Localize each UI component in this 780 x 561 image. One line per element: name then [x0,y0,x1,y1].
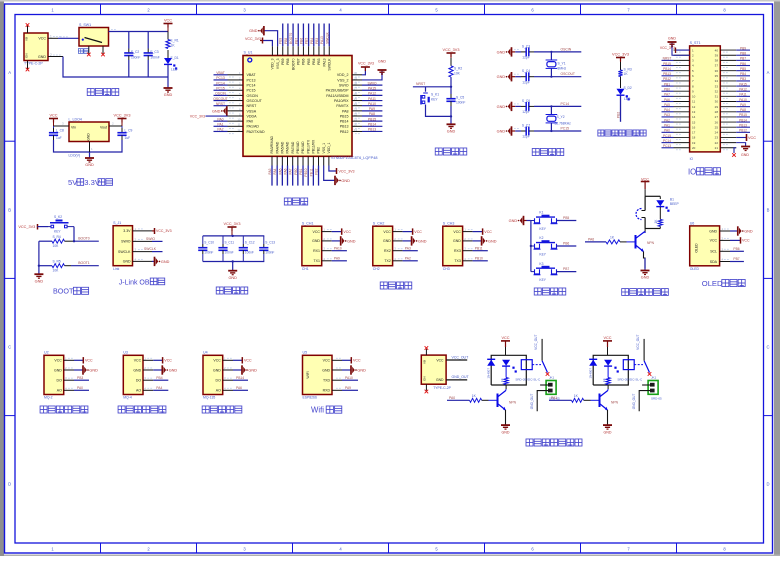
svg-text:S_ST1: S_ST1 [690,41,701,45]
svg-text:GN: GN [25,54,29,59]
alarm resistor 1K [654,207,663,227]
svg-text:PA4/AD: PA4/AD [275,141,279,153]
svg-text:S_Y2: S_Y2 [557,115,565,119]
svg-text:S_J1: S_J1 [113,221,121,225]
GND at VSS_2 [362,60,387,80]
svg-text:PB5: PB5 [307,58,311,65]
svg-text:RX1: RX1 [313,249,320,253]
svg-text:PB13: PB13 [340,125,349,129]
svg-text:PA15: PA15 [739,82,747,86]
svg-text:VCC: VCC [164,18,172,22]
VCC_3V3 at VDD_3 [245,37,272,46]
wire K2 to BOOT0 node [73,227,75,242]
VCC symbol LDO input [49,113,58,126]
svg-text:S_SW1: S_SW1 [79,23,91,27]
svg-text:GND: GND [497,75,506,79]
relay driver 1 [447,335,560,435]
svg-text:GND: GND [668,37,676,41]
title J-Link OB [119,278,165,286]
svg-text:J-Link OB: J-Link OB [119,279,150,286]
ground symbol power circuit [164,77,173,97]
transistor Q NPN alarm [636,229,655,253]
svg-text:PC13: PC13 [663,144,671,148]
svg-text:PB12: PB12 [739,129,747,133]
MCU top pin names inside [271,58,332,71]
svg-text:MQ-2: MQ-2 [44,396,53,400]
svg-text:GND: GND [436,378,444,382]
svg-text:TXD: TXD [323,379,330,383]
svg-text:PA2: PA2 [664,118,670,122]
svg-text:U2: U2 [44,351,49,355]
title power circuit [87,88,119,95]
svg-text:34: 34 [715,79,719,83]
svg-text:VCC: VCC [134,359,142,363]
svg-text:GND: GND [87,133,91,141]
svg-text:S_C7: S_C7 [522,124,530,128]
svg-text:10: 10 [237,118,241,122]
wire J1-GND to ground rail [48,57,168,78]
connector U6 OLED body [690,221,720,271]
svg-text:GND: GND [488,239,497,243]
svg-text:U6: U6 [690,221,695,225]
LED S_D2 [617,77,632,102]
svg-text:C: C [8,345,11,350]
module U2 MQ-2 smoke [44,351,98,400]
svg-text:17: 17 [692,131,696,135]
svg-text:PB12: PB12 [340,130,349,134]
svg-text:S_R2: S_R2 [454,67,462,71]
svg-text:E_D1: E_D1 [171,56,179,60]
BOOT1 net label [71,261,99,266]
svg-text:PA4: PA4 [156,386,162,390]
svg-text:S_R3: S_R3 [624,68,632,72]
svg-text:VCC_3V3: VCC_3V3 [443,48,460,52]
svg-text:GND: GND [164,93,173,97]
resistor S_R2 10K [449,66,463,77]
svg-text:D: D [766,482,769,487]
svg-text:E_C2: E_C2 [131,50,139,54]
svg-text:NPN: NPN [647,241,655,245]
svg-text:10K: 10K [53,268,60,272]
svg-text:GND: GND [322,368,330,372]
svg-text:GND: GND [709,229,717,233]
svg-text:S_C10: S_C10 [204,241,214,245]
svg-text:U4: U4 [203,351,208,355]
svg-text:GND: GND [161,260,170,264]
ground symbol alarm [641,271,650,280]
serial connector S_CH3 [443,222,497,271]
svg-text:GND_OUT: GND_OUT [452,375,470,379]
svg-text:PB4: PB4 [312,58,316,65]
svg-text:KEY: KEY [539,278,546,282]
svg-text:VB: VB [423,360,427,364]
svg-text:VCC: VCC [748,136,756,140]
svg-text:VCC_3V3: VCC_3V3 [18,225,35,229]
svg-text:22: 22 [715,141,719,145]
svg-text:SCL: SCL [710,250,717,254]
svg-text:PA4: PA4 [273,168,277,174]
header left pins [662,48,696,150]
svg-text:1uF: 1uF [125,136,131,140]
svg-text:GND: GND [453,239,461,243]
svg-text:PC13: PC13 [216,76,225,80]
svg-text:32.768KHz: 32.768KHz [555,122,572,126]
svg-text:PA10/RX: PA10/RX [334,99,349,103]
svg-text:PA12: PA12 [368,92,376,96]
svg-text:VCC: VCC [313,230,321,234]
crystal S_Y1 8MHz [546,51,567,78]
crystal cap S_C4 branch [497,69,582,84]
svg-text:PA1/AD: PA1/AD [247,125,260,129]
svg-text:GND: GND [169,368,178,372]
svg-text:VCC: VCC [710,239,718,243]
GND port at VSSA [212,106,227,115]
svg-text:S_R4: S_R4 [53,235,61,239]
ground symbol boot [34,274,43,283]
svg-text:PA11: PA11 [739,93,747,97]
resistor E_R1 1K [166,32,179,49]
oled pin stubs [720,227,730,262]
svg-text:PB6: PB6 [733,247,739,251]
svg-text:KEY: KEY [431,98,438,102]
svg-text:PA0: PA0 [247,120,254,124]
oled SDA net [730,257,744,261]
svg-text:S_C12: S_C12 [245,241,255,245]
svg-text:PA3/RX/AD: PA3/RX/AD [270,135,274,153]
pushbutton K1 [531,211,576,231]
svg-text:1N4007: 1N4007 [589,368,593,379]
svg-text:PB14: PB14 [368,123,376,127]
svg-text:PC15: PC15 [247,89,256,93]
svg-text:PB9: PB9 [279,38,283,44]
svg-text:26: 26 [715,120,719,124]
svg-text:L_LDO4: L_LDO4 [69,118,82,122]
svg-text:LED: LED [171,68,178,72]
MCU U1 STM32F103C8T6 body [243,50,377,159]
capacitor S_C13 100nF [265,241,275,255]
switch S_SW1 [78,23,108,53]
svg-text:PB8: PB8 [740,52,746,56]
svg-text:37: 37 [715,64,719,68]
GND at VSS_1 [324,166,350,186]
svg-text:21: 21 [715,146,719,150]
svg-text:PB5: PB5 [305,38,309,44]
svg-text:PA2/TX/AD: PA2/TX/AD [247,130,266,134]
regulator L_LDO4 [69,118,110,158]
svg-text:E_C3: E_C3 [150,50,158,54]
svg-text:JK1: JK1 [651,375,657,379]
svg-text:PB7: PB7 [740,57,746,61]
svg-text:PA1: PA1 [551,396,557,400]
svg-text:PA11/USBDM: PA11/USBDM [326,94,348,98]
svg-text:RXD: RXD [323,389,331,393]
svg-text:PB7: PB7 [563,267,569,271]
svg-text:NRST: NRST [247,104,258,108]
svg-text:C: C [766,345,769,350]
svg-text:BEEP: BEEP [670,202,680,206]
svg-text:PA8: PA8 [740,108,746,112]
svg-text:12: 12 [692,105,696,109]
svg-text:IO: IO [688,167,696,176]
svg-text:20: 20 [692,146,696,150]
key rail vertical [530,221,532,272]
title key circuit [534,288,566,295]
oled VCC [730,237,750,243]
svg-text:GND: GND [123,260,131,264]
svg-text:GND: GND [35,279,44,283]
svg-text:PB0/AD: PB0/AD [296,141,300,154]
svg-text:12pF: 12pF [522,110,530,114]
svg-text:PA11: PA11 [368,97,376,101]
svg-text:GND: GND [497,50,506,54]
wire Vout to VCC_3V3 [109,122,122,127]
svg-text:25: 25 [715,125,719,129]
svg-text:100nF: 100nF [204,251,213,255]
svg-text:S_C11: S_C11 [225,241,235,245]
oled SCL net [730,247,744,251]
svg-text:AO: AO [136,389,141,393]
svg-text:PA2: PA2 [217,128,223,132]
svg-text:100nF: 100nF [245,251,254,255]
svg-text:A: A [767,70,770,75]
alarm top rail [645,195,660,197]
svg-text:VCC_OUT: VCC_OUT [534,335,538,350]
svg-text:NRST: NRST [416,82,425,86]
svg-text:PA3: PA3 [268,168,272,174]
svg-text:PA6/AD: PA6/AD [286,141,290,153]
title wifi module [311,406,342,415]
svg-text:16: 16 [692,125,696,129]
capacitor S_C11 100nF [225,241,235,255]
svg-text:GND: GND [497,105,506,109]
svg-text:PA6: PA6 [284,168,288,174]
svg-text:VSSA: VSSA [247,109,257,113]
svg-text:GND: GND [383,239,391,243]
svg-text:PB6: PB6 [740,62,746,66]
svg-text:PB5: PB5 [740,67,746,71]
svg-text:35: 35 [715,74,719,78]
svg-text:PB1: PB1 [664,82,670,86]
svg-text:B: B [8,207,11,212]
svg-text:KEY: KEY [539,227,546,231]
svg-text:PB10: PB10 [304,168,308,176]
svg-text:S_K2: S_K2 [54,215,62,219]
svg-text:12: 12 [237,128,241,132]
no-connect marks on J1 [26,23,30,71]
svg-text:PB7: PB7 [733,257,739,261]
jlink SWIO [146,237,163,241]
svg-text:L_C9: L_C9 [125,129,133,133]
alarm bottom rail [645,226,660,228]
svg-text:PB2: PB2 [317,147,321,154]
svg-text:VCC_3V3: VCC_3V3 [339,169,355,173]
svg-text:TX1: TX1 [313,259,319,263]
svg-text:10: 10 [692,95,696,99]
svg-text:B1: B1 [670,197,674,201]
svg-text:PB11: PB11 [309,168,313,176]
svg-text:3.3V: 3.3V [123,229,131,233]
oled GND [730,226,753,235]
svg-text:VDD_1: VDD_1 [327,142,331,153]
svg-text:GND: GND [89,368,98,372]
svg-text:S_C5: S_C5 [456,96,464,100]
svg-text:NRST: NRST [216,102,225,106]
VCC_3V3 indicator [612,52,629,70]
svg-text:B: B [767,207,770,212]
capacitor E_C2 100nF [124,49,140,61]
svg-text:PA5/AD: PA5/AD [281,141,285,153]
serial connector S_CH1 [302,222,356,271]
GND at VSS_3 [249,26,278,46]
svg-text:PB1/AD: PB1/AD [301,141,305,154]
svg-text:PB14: PB14 [739,118,747,122]
svg-text:PC14: PC14 [663,139,671,143]
svg-text:BOOT1: BOOT1 [78,261,90,265]
svg-text:NRST: NRST [663,57,672,61]
wire C5 to gnd node [450,106,452,124]
svg-text:Vin: Vin [71,126,76,130]
resistor S_R5 10K [39,260,71,273]
svg-text:VCC: VCC [436,358,444,362]
svg-text:JK1: JK1 [549,375,555,379]
svg-text:PB15: PB15 [368,117,376,121]
svg-text:GND: GND [212,109,221,113]
svg-text:SRD-05VDC-SL-C: SRD-05VDC-SL-C [515,377,541,381]
svg-text:S_C4: S_C4 [522,69,530,73]
connector TYPE-C-2P output [421,346,451,393]
svg-text:PB2: PB2 [315,168,319,174]
svg-text:VDDA: VDDA [247,114,258,118]
wire J1-VCC to switch [48,37,79,39]
wire switch output rail [109,30,169,32]
svg-text:TYPE-C-2P: TYPE-C-2P [433,386,451,390]
svg-text:11: 11 [692,100,695,104]
svg-text:S_CH2: S_CH2 [373,222,385,226]
svg-text:DO: DO [57,379,63,383]
svg-text:28: 28 [715,110,719,114]
svg-text:GN: GN [423,377,427,382]
MCU top pins with net labels [272,24,329,56]
module U5 ESP8266 wifi [303,351,367,400]
svg-text:VCC: VCC [603,336,611,340]
svg-text:PB5: PB5 [563,216,569,220]
svg-text:S_CH3: S_CH3 [443,222,455,226]
svg-text:PB11/RX: PB11/RX [312,139,316,153]
svg-text:MQ-4: MQ-4 [123,396,132,400]
LDO ground net [54,140,123,158]
VCC alarm [641,177,650,196]
title benzene detection module [202,406,242,413]
VCC_3V3 boot [18,224,48,230]
svg-text:CH2: CH2 [373,267,380,271]
svg-text:PA0: PA0 [449,396,455,400]
svg-text:SWCLK: SWCLK [325,31,329,44]
svg-text:GND: GND [85,163,94,167]
svg-text:PB13: PB13 [663,72,671,76]
svg-text:PB4: PB4 [310,38,314,44]
VCC_OUT wire [446,355,469,360]
svg-text:PA13: PA13 [320,36,324,44]
svg-text:100nF: 100nF [265,251,274,255]
alarm emitter to ground [644,252,646,271]
svg-text:VCC_3V3: VCC_3V3 [156,229,172,233]
svg-text:PA9: PA9 [369,107,375,111]
title smoke detection module [40,406,88,413]
title program run indicator [598,130,646,136]
svg-text:VCC_3V3: VCC_3V3 [224,222,241,226]
module U4 MQ-135 benzene [203,351,257,400]
svg-text:PB15: PB15 [739,113,747,117]
header S_ST1 body [690,41,721,161]
crystal cap S_C7 branch [497,124,582,139]
svg-text:SWIO: SWIO [121,240,131,244]
pin number 2 on J1 [50,53,61,57]
svg-text:SWCLK: SWCLK [144,247,157,251]
svg-text:VCC: VCC [742,239,750,243]
svg-text:IO: IO [690,157,694,161]
title reset circuit [435,148,467,155]
title serial circuit [380,282,412,289]
MCU bottom pins with net labels [268,156,329,185]
svg-text:GND: GND [54,368,62,372]
svg-text:PB10/TX: PB10/TX [306,139,310,153]
svg-text:OLED: OLED [695,243,699,253]
connector J1 TYPE-C-2P [24,26,48,70]
svg-text:PA9: PA9 [740,103,746,107]
svg-text:NPN: NPN [611,401,619,405]
svg-text:PA0: PA0 [664,129,670,133]
ground symbol filter [228,271,237,280]
MCU bottom pin names inside [270,135,331,153]
svg-text:CH1: CH1 [302,267,309,271]
svg-text:SWIO: SWIO [339,84,349,88]
MCU left pins with net labels [213,71,265,134]
svg-text:PB12: PB12 [663,77,671,81]
svg-text:1K: 1K [602,378,606,382]
svg-text:PC15: PC15 [561,127,570,131]
title alarm circuit [622,289,669,296]
svg-text:PA2: PA2 [405,257,411,261]
svg-text:OSCOUT: OSCOUT [213,97,228,101]
wire LED to ground rail [167,65,169,78]
capacitor E_C3 100nF [144,49,160,61]
svg-text:10K: 10K [454,72,461,76]
svg-text:VCC: VCC [38,37,46,41]
svg-text:PA9/TX: PA9/TX [336,104,349,108]
title IO expansion port [688,167,720,176]
svg-text:U3: U3 [123,351,128,355]
svg-text:K2: K2 [539,236,543,240]
crystal cap S_C6 branch [497,99,582,114]
pushbutton S_K2 KEY [48,215,74,234]
svg-text:GND: GND [447,130,456,134]
BOOT0 net label [73,237,99,243]
svg-text:GND: GND [502,431,510,435]
svg-text:PA1: PA1 [664,124,670,128]
svg-text:GND: GND [312,239,320,243]
svg-text:PB3: PB3 [740,77,746,81]
svg-text:36: 36 [715,69,719,73]
svg-text:BOOT0: BOOT0 [291,58,295,70]
svg-text:GND_OUT: GND_OUT [530,394,534,410]
svg-text:29: 29 [715,105,719,109]
svg-text:GND: GND [228,276,237,280]
svg-text:TX3: TX3 [454,259,460,263]
svg-text:30: 30 [715,100,719,104]
svg-text:TYPE-C-2P: TYPE-C-2P [24,62,43,66]
svg-text:PB13: PB13 [739,124,747,128]
svg-text:32: 32 [715,89,719,93]
